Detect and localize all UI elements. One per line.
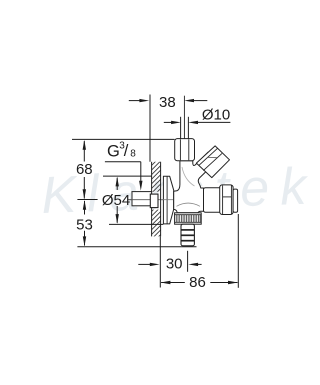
svg-text:Ø10: Ø10	[202, 107, 230, 124]
leader G3/8	[105, 162, 143, 191]
dimension O10	[164, 121, 231, 124]
wall left edge	[151, 162, 153, 237]
dimension O54	[103, 176, 163, 224]
right hose union: end stub	[233, 189, 238, 212]
compression nut (top)	[175, 139, 195, 161]
wall right edge	[160, 162, 162, 237]
svg-text:Ø54: Ø54	[102, 192, 130, 209]
knurled ring	[175, 213, 202, 224]
right hose union: hex nut	[220, 185, 233, 215]
right hose union: cylinder	[204, 188, 224, 213]
dimension 86	[161, 214, 239, 288]
svg-text:30: 30	[166, 255, 183, 272]
svg-text:53: 53	[76, 216, 93, 233]
svg-text:8: 8	[130, 149, 136, 160]
dimension 53	[77, 200, 196, 247]
svg-text:38: 38	[159, 94, 176, 111]
G3/8 tailpiece through wall	[128, 192, 152, 206]
svg-text:/: /	[124, 142, 129, 160]
svg-text:86: 86	[189, 274, 206, 291]
thread engagement in wall	[150, 194, 158, 208]
dimension 68	[72, 139, 175, 199]
svg-text:68: 68	[76, 161, 93, 178]
centerline (valve horizontal axis)	[128, 199, 176, 201]
hose barb	[181, 224, 194, 246]
body internal passage lines	[177, 203, 201, 206]
valve body	[174, 152, 217, 213]
riser pipe (O10)	[181, 96, 189, 139]
dimension 30	[138, 236, 201, 287]
escutcheon flange	[161, 176, 174, 224]
wall hatching	[146, 149, 168, 254]
dimension 38	[129, 95, 208, 162]
svg-text:G: G	[107, 142, 120, 160]
45-degree outlet nut	[196, 146, 229, 178]
